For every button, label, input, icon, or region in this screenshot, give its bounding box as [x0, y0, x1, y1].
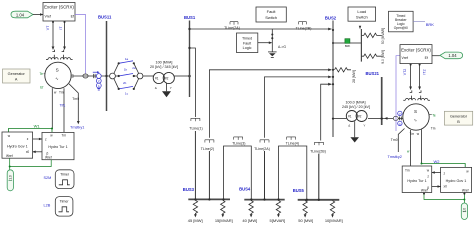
- svg-text:Timed: Timed: [242, 37, 252, 41]
- wire w into hydro tur A: [51, 129, 53, 133]
- svg-text:w: w: [407, 149, 410, 153]
- svg-text:#2: #2: [165, 77, 169, 81]
- svg-text:V: V: [399, 112, 401, 116]
- slider capsule Wref A: [7, 170, 13, 191]
- wire Tm generator B to hydro tur B: [410, 130, 412, 166]
- load resistor BUS4 Q: [276, 200, 280, 215]
- wire Tm0 generator B: [398, 129, 404, 153]
- svg-text:TIf1: TIf1: [59, 103, 65, 107]
- wire TLine(2) lower: [208, 151, 210, 199]
- svg-text:IT: IT: [59, 26, 63, 30]
- svg-text:W1: W1: [34, 124, 41, 129]
- svg-text:100 [MVA]: 100 [MVA]: [156, 61, 173, 65]
- busbar BUS1: [189, 21, 191, 98]
- svg-text:Vref: Vref: [402, 56, 408, 60]
- svg-text:Wref: Wref: [462, 189, 469, 193]
- svg-text:245 [kV] / 20 [kV]: 245 [kV] / 20 [kV]: [342, 105, 370, 109]
- svg-text:20 [kV] / 345 [kV]: 20 [kV] / 345 [kV]: [150, 65, 178, 69]
- pin Te generator A: [44, 73, 46, 75]
- svg-text:50 [MVAR]: 50 [MVAR]: [381, 28, 385, 44]
- breaker BRK green: [345, 39, 350, 44]
- tline icon TLine(3): [234, 137, 243, 140]
- wire TLine(1) to BUS3: [194, 131, 196, 199]
- svg-text:BUS11: BUS11: [98, 15, 112, 20]
- tline icon TLine(2A): [230, 22, 238, 25]
- svg-text:A: A: [15, 78, 18, 82]
- exciter U-EXB box Exciter (SCRX): [400, 45, 432, 64]
- svg-text:Timer: Timer: [60, 172, 70, 176]
- wire TLine(3) BUS3 to BUS4 bracket: [224, 146, 252, 200]
- svg-text:Wref: Wref: [6, 154, 13, 158]
- svg-text:Tmstky2: Tmstky2: [388, 155, 402, 159]
- green wire W1: [9, 129, 53, 133]
- busbar BUS5: [298, 199, 340, 201]
- box Load Switch: [348, 7, 376, 21]
- svg-text:BRK: BRK: [426, 22, 435, 27]
- box Hydro Tur 1 A: [42, 132, 74, 159]
- svg-text:TLine(3): TLine(3): [232, 142, 245, 146]
- wire generator A terminal to BUS11: [71, 74, 73, 78]
- tline icon TLine(4): [287, 137, 296, 140]
- svg-text:VT: VT: [46, 25, 50, 30]
- svg-text:B: B: [457, 120, 460, 124]
- svg-text:Wref: Wref: [45, 156, 52, 160]
- svg-text:S2M: S2M: [44, 176, 52, 180]
- svg-text:TLine(2B): TLine(2B): [310, 150, 326, 154]
- svg-text:x0: x0: [444, 185, 448, 189]
- label box Generator B: [444, 111, 472, 125]
- busbar BUS21: [381, 77, 383, 125]
- svg-text:A->G: A->G: [278, 45, 286, 49]
- svg-text:TLine(2B): TLine(2B): [296, 26, 312, 30]
- label box Generator A: [3, 69, 31, 83]
- svg-text:Open@t0: Open@t0: [394, 26, 408, 30]
- node ellipse on generator A terminal: [83, 74, 88, 78]
- svg-text:L2B: L2B: [44, 204, 51, 208]
- green wire Wref A: [10, 158, 52, 170]
- wire BRK to load bar: [350, 42, 362, 44]
- svg-text:S: S: [56, 67, 59, 72]
- wire capsule B to exciter: [432, 55, 440, 57]
- svg-text:w: w: [417, 132, 420, 136]
- box Timed Breaker Logic: [389, 11, 414, 32]
- svg-text:Δ: Δ: [348, 124, 350, 128]
- wire Ef output of exciter A to stator node: [75, 15, 86, 74]
- svg-text:Tm: Tm: [431, 127, 436, 131]
- svg-text:Switch: Switch: [265, 15, 277, 20]
- svg-text:BUS2: BUS2: [325, 16, 337, 21]
- svg-text:BRK: BRK: [345, 44, 351, 48]
- load resistor BUS3 Q: [221, 200, 225, 215]
- svg-text:Timer: Timer: [60, 199, 70, 203]
- svg-text:1.0: 1.0: [8, 175, 12, 180]
- svg-text:15[MVAR]: 15[MVAR]: [215, 218, 233, 223]
- svg-text:A: A: [399, 122, 401, 126]
- svg-text:BUS5: BUS5: [293, 188, 305, 193]
- timer box 1: [55, 170, 74, 189]
- svg-text:50 [MW]: 50 [MW]: [298, 218, 313, 223]
- svg-text:Generator: Generator: [450, 114, 468, 118]
- svg-text:45 [MW]: 45 [MW]: [188, 218, 203, 223]
- breaker node right: [137, 73, 143, 79]
- svg-text:VT2: VT2: [403, 69, 407, 76]
- svg-text:TLine(2A): TLine(2A): [224, 26, 240, 30]
- svg-text:Exciter (SCRX): Exciter (SCRX): [401, 48, 431, 53]
- breaker phase contacts blue: [119, 61, 133, 89]
- wire TLine(2A) lower: [264, 151, 266, 200]
- svg-text:Te: Te: [432, 113, 436, 117]
- busbar BUS3: [188, 198, 230, 200]
- svg-text:Ef: Ef: [425, 56, 428, 60]
- svg-text:TLine(4): TLine(4): [286, 142, 299, 146]
- pin Te generator B: [429, 114, 432, 116]
- field winding symbol above generator A: [46, 50, 73, 60]
- wire BUS2 to breaker BRK: [333, 42, 345, 44]
- svg-text:BUS1: BUS1: [184, 15, 196, 20]
- timer box 2: [55, 197, 73, 217]
- svg-text:Tm: Tm: [59, 91, 64, 95]
- svg-text:A: A: [98, 84, 100, 88]
- field winding symbol above generator B: [403, 90, 430, 100]
- fault ground symbol: [268, 51, 277, 53]
- svg-text:BUS21: BUS21: [366, 71, 380, 76]
- svg-text:Generator: Generator: [8, 72, 26, 76]
- wire T1 to BUS1: [174, 75, 189, 77]
- svg-text:1a: 1a: [125, 57, 129, 61]
- wire breaker to transformer T1: [143, 75, 154, 77]
- box Hydro Tur 1 B: [402, 166, 432, 193]
- svg-text:#1: #1: [155, 77, 159, 81]
- slider capsule Vref A "1.04": [11, 11, 33, 18]
- generator B machine circle: [403, 104, 429, 130]
- transformer T2: [346, 111, 357, 122]
- wire TLine(2B) BUS2 to BUS5: [321, 84, 332, 140]
- svg-text:IT2: IT2: [423, 69, 427, 74]
- svg-text:Ef: Ef: [71, 15, 74, 19]
- load bar: [360, 29, 362, 62]
- multimeter B: [398, 111, 402, 125]
- svg-text:V: V: [98, 79, 100, 83]
- wire to BRK label: [413, 21, 425, 23]
- node ellipse generator B terminal: [382, 117, 404, 119]
- svg-text:Vref: Vref: [45, 15, 51, 19]
- wire TLine(2A) BUS2 to BUS4: [265, 77, 332, 138]
- box Timed Fault Logic: [237, 33, 258, 53]
- svg-text:Switch: Switch: [356, 15, 368, 20]
- tline icon TLine(1): [191, 118, 200, 121]
- svg-text:x0: x0: [26, 150, 30, 154]
- svg-text:Tm0: Tm0: [391, 138, 398, 142]
- box Hydro Gov 1 B: [441, 167, 472, 192]
- tline icon TLine(2): [205, 140, 214, 143]
- svg-text:Y: Y: [170, 86, 172, 90]
- ground T2: [354, 121, 356, 137]
- svg-text:1.04: 1.04: [448, 53, 457, 58]
- svg-text:1.0: 1.0: [463, 208, 467, 213]
- exciter U-EXA box Exciter (SCRX): [43, 3, 75, 22]
- wire Tm0 generator A: [69, 84, 78, 122]
- wire IT2 measurement tap: [419, 64, 421, 88]
- load resistor BUS5 Q: [330, 201, 334, 216]
- svg-text:Tm: Tm: [405, 168, 410, 172]
- wire T2 to BUS21: [368, 118, 382, 120]
- svg-text:Te: Te: [40, 72, 44, 76]
- wire TLine(2) BUS2 to BUS3: [209, 70, 331, 138]
- svg-text:Fault: Fault: [243, 41, 251, 45]
- tline icon TLine(2B): [299, 22, 307, 25]
- wire TLine(2B) lower: [318, 154, 320, 200]
- load resistor BUS3 P: [193, 200, 197, 215]
- load resistor BUS4 P: [249, 200, 253, 215]
- svg-text:Hydro Gov 1: Hydro Gov 1: [446, 179, 467, 183]
- wire capsule to exciter Vref: [33, 14, 43, 16]
- svg-text:Δ: Δ: [155, 86, 157, 90]
- svg-text:Y: Y: [363, 124, 365, 128]
- box Fault Switch: [256, 7, 286, 22]
- svg-text:Hydro Gov 1: Hydro Gov 1: [7, 144, 28, 148]
- svg-text:BUS3: BUS3: [183, 187, 195, 192]
- load resistor switched P: [361, 54, 381, 58]
- svg-text:Tmstky1: Tmstky1: [70, 126, 84, 130]
- wire VT2 measurement tap: [410, 64, 412, 88]
- svg-text:5[MVAR]: 5[MVAR]: [270, 218, 286, 223]
- svg-text:2b: 2b: [123, 81, 127, 85]
- three phase breaker paths: [114, 63, 139, 89]
- box Hydro Gov 1 A: [2, 132, 33, 158]
- svg-text:Wref: Wref: [421, 189, 428, 193]
- wire w generator A down to W1: [51, 88, 53, 128]
- svg-text:TLine(2): TLine(2): [201, 147, 214, 151]
- green wire Wref B: [424, 193, 464, 203]
- busbar BUS2: [332, 21, 334, 138]
- svg-text:TLine(1): TLine(1): [189, 127, 202, 131]
- wire Ef exciter B to generator B: [396, 56, 400, 131]
- wire w generator B down: [421, 130, 423, 164]
- svg-text:#1: #1: [348, 115, 352, 119]
- wire TLine(4) BUS4 to BUS5 bracket: [279, 146, 307, 200]
- busbar BUS4: [244, 199, 284, 201]
- slider capsule Wref B: [461, 203, 467, 220]
- wires between hydro boxes B: [432, 172, 441, 174]
- tline icon TLine(2B) lower: [315, 142, 324, 145]
- svg-text:#2: #2: [358, 115, 362, 119]
- svg-text:2a: 2a: [132, 66, 136, 70]
- transformer T1: [153, 72, 164, 83]
- svg-text:40 [MW]: 40 [MW]: [242, 218, 257, 223]
- wire Tm generator A to hydro tur A: [63, 88, 65, 132]
- breaker node left: [110, 73, 116, 79]
- svg-text:Exciter (SCRX): Exciter (SCRX): [44, 4, 74, 9]
- svg-text:w: w: [54, 91, 57, 95]
- fault branch wire: [271, 29, 273, 52]
- svg-text:10[MVAR]: 10[MVAR]: [325, 218, 343, 223]
- multimeter A: [93, 72, 101, 90]
- svg-text:∿: ∿: [414, 118, 418, 123]
- svg-text:Ef: Ef: [40, 85, 43, 89]
- slider capsule Vref B "1.04": [440, 52, 463, 59]
- wire top transmission line BUS1 to BUS2: [190, 28, 332, 30]
- svg-text:TLine(2A): TLine(2A): [254, 147, 270, 151]
- generator A machine circle: [45, 62, 71, 88]
- wire timed fault logic to fault: [258, 42, 272, 44]
- load resistor BUS5 P: [303, 201, 307, 216]
- svg-text:S: S: [414, 109, 417, 114]
- ground T1: [166, 83, 168, 91]
- svg-text:∿: ∿: [55, 76, 59, 81]
- svg-text:BUS4: BUS4: [239, 187, 251, 192]
- svg-text:Tm0: Tm0: [72, 97, 79, 101]
- svg-text:1.04: 1.04: [16, 12, 25, 17]
- svg-text:1b: 1b: [124, 68, 128, 72]
- svg-text:1c: 1c: [125, 91, 129, 95]
- green wire W2: [422, 164, 466, 168]
- tline icon TLine(2A) lower: [260, 140, 269, 143]
- wire TLine(1) stub from BUS1: [190, 48, 196, 117]
- svg-text:Load: Load: [357, 9, 366, 14]
- load resistor 28 MW on BUS2: [335, 68, 352, 72]
- load resistor switched Q: [361, 33, 381, 37]
- wires between hydro boxes A: [33, 138, 42, 140]
- svg-text:Hydro Tur 1: Hydro Tur 1: [407, 179, 426, 183]
- wire VT measurement tap: [52, 21, 54, 48]
- svg-text:Hydro Tur 1: Hydro Tur 1: [48, 145, 67, 149]
- wire IT measurement tap: [64, 21, 66, 48]
- svg-text:100.0 [MVA]: 100.0 [MVA]: [345, 100, 365, 104]
- svg-text:W2: W2: [434, 159, 441, 164]
- svg-text:Fault: Fault: [267, 9, 277, 14]
- svg-text:28 [MW]: 28 [MW]: [352, 70, 356, 83]
- svg-text:Logic: Logic: [243, 46, 252, 50]
- svg-text:9.0 [MW]: 9.0 [MW]: [381, 50, 385, 64]
- svg-text:Tm: Tm: [62, 133, 67, 137]
- busbar BUS11: [106, 21, 108, 111]
- wire BUS2 to transformer T2: [333, 118, 346, 120]
